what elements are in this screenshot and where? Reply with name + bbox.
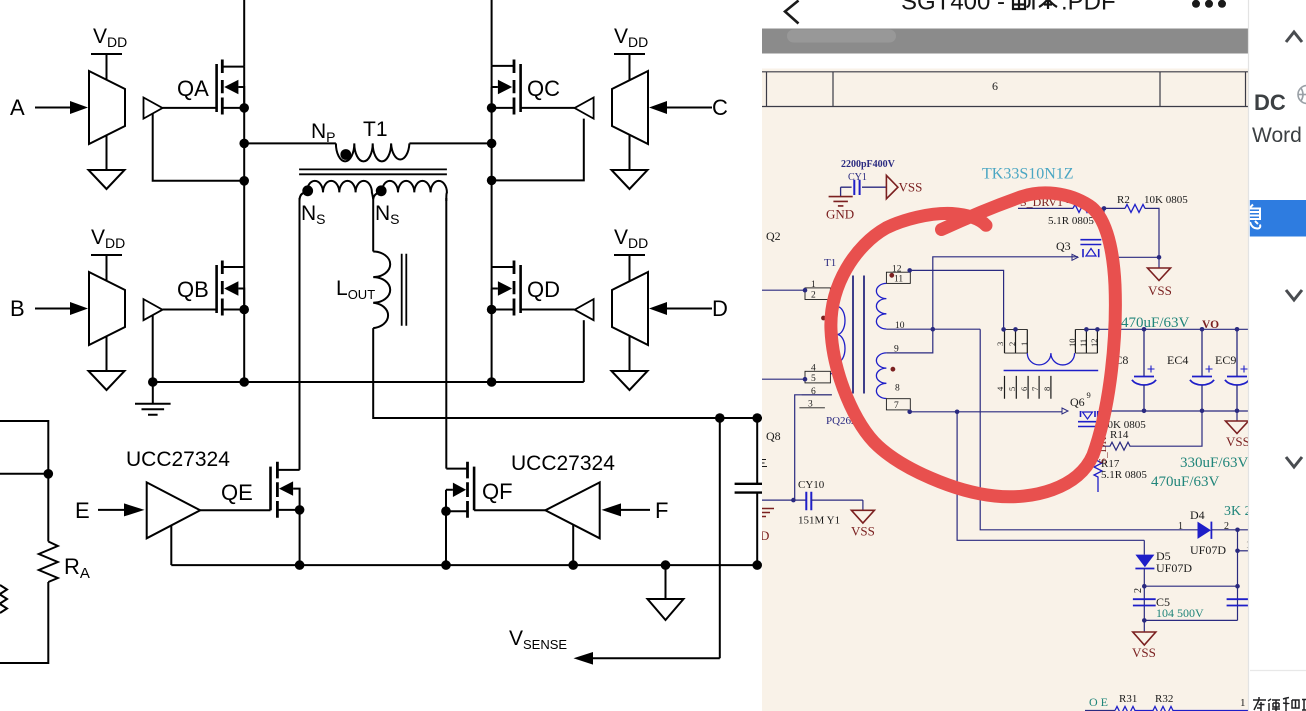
svg-text:.PDF: .PDF [1061,0,1116,16]
node QE rail [295,560,305,570]
power VSS (Q3) [1158,257,1160,268]
wire top rail to QA drain [243,0,245,67]
output choke winding [1027,353,1074,365]
wire QF return [572,525,574,565]
svg-text:Word: Word [1252,124,1302,147]
svg-text:470uF/63V: 470uF/63V [1121,315,1190,331]
capacitor EC4 [1190,329,1214,410]
svg-text:SGT400 -: SGT400 - [901,0,1005,16]
wire pin12 to choke [910,270,1004,329]
node gnd rail left [148,377,158,387]
T1 secondary phase dot lower [891,367,896,372]
node dots [44,103,763,570]
capacitor EC8 [1132,329,1156,410]
wire pin6 to CY10 node [795,395,832,500]
transistor QC [492,60,575,115]
svg-text:5.1R 0805: 5.1R 0805 [1101,469,1147,481]
capacitor CY1 [841,180,887,197]
svg-text:VDD: VDD [614,25,648,50]
svg-text:7: 7 [1030,387,1040,391]
node NP left [239,139,249,149]
svg-text:12: 12 [1089,339,1099,348]
T1 secondary pin 7 [886,399,910,410]
ground (hatched) at main rail [135,382,171,415]
node RA top [44,469,54,479]
resistor R2 [1125,204,1145,212]
wire primary NP left [244,142,336,144]
buffer gate QA [144,98,163,119]
node QC return [487,176,497,186]
svg-text:GND: GND [826,207,854,222]
svg-text:Q3: Q3 [1056,239,1071,253]
svg-text:VSS: VSS [851,524,875,539]
svg-text:Q8: Q8 [766,429,781,443]
title block table [762,72,1248,107]
diode D5 [1143,540,1145,554]
resistor R1 [1073,204,1093,212]
T1 core [853,276,864,394]
svg-text:5: 5 [811,374,816,384]
svg-text:8: 8 [895,384,900,394]
svg-text:VSS: VSS [1132,645,1156,660]
wire QE return [170,526,172,565]
op-amp driver QE (UCC27324) [147,482,201,538]
node dots output rail [1142,327,1147,332]
driver D (trapezoid buffer, mirrored) [612,255,713,390]
capacitor C5 [1133,599,1156,605]
svg-text:EC4: EC4 [1167,353,1188,367]
wire output cap bottom [756,493,758,565]
T1 primary winding [830,294,845,374]
svg-text:QE: QE [221,480,253,505]
svg-text:2: 2 [1133,588,1144,593]
output choke pins 10/11/12 [1075,329,1097,353]
svg-text:9: 9 [1087,390,1091,400]
capacitor output [735,484,762,493]
node gnd lower rail [661,560,671,570]
svg-text:EC9: EC9 [1215,353,1236,367]
output choke second winding pins 4-8 [1005,376,1051,399]
node QE source [295,505,305,515]
driver B (trapezoid buffer) [35,255,125,390]
red annotation circle (single hand-drawn loop, start/end crossing at top-left) [831,193,1115,497]
wire output cap top [756,418,758,484]
sidebar divider [1250,670,1306,672]
wire Q6 gate down [1097,428,1099,457]
svg-text:11: 11 [894,275,903,285]
svg-text:VSS: VSS [1148,283,1172,298]
node NP right [487,139,497,149]
node QD source [487,305,497,315]
svg-text:QC: QC [527,76,560,101]
svg-text:D4: D4 [1190,508,1205,522]
svg-text:QA: QA [177,76,209,101]
node QF source [441,506,451,516]
transformer T1 primary winding NP [336,143,409,161]
svg-text:VSENSE: VSENSE [509,627,567,652]
node NS2 dot mark [376,185,387,196]
svg-text:8: 8 [1042,387,1052,391]
T1 primary pin 1/2 [762,289,805,291]
lower rail from pin7 [1100,410,1248,412]
buffer gate QC [575,98,594,119]
pdf viewer gray toolbar [762,29,1250,54]
node cap lower rail [752,560,762,570]
svg-text:CY10: CY10 [798,479,825,491]
wire bus QA source to QB drain [243,67,245,382]
wire ground rail [153,381,584,383]
svg-text:D: D [712,296,728,321]
svg-text:3: 3 [995,342,1005,346]
buffer gate QB [144,299,163,320]
resistor R31 [1115,707,1248,711]
transistor QB [163,261,245,316]
svg-text:B: B [10,296,25,321]
wire bus QC source to QD drain [491,66,493,382]
svg-text:7: 7 [894,401,899,411]
svg-text:4: 4 [811,363,816,373]
power VSS (C5) [1143,620,1145,632]
svg-text:C: C [712,95,728,120]
svg-text:2: 2 [811,291,816,301]
svg-text:A: A [10,95,25,120]
svg-text:UF07D: UF07D [1156,561,1192,575]
node QF return rail [568,560,578,570]
globe icon (clipped) [1298,86,1306,104]
capacitor CY10 [762,499,806,501]
svg-text:6: 6 [1019,387,1029,391]
transistor QF [446,462,545,518]
wire NS left to QE drain [299,198,301,470]
wire top rail to QC drain [491,0,493,66]
T1 secondary winding lower [876,353,886,399]
svg-text:CY1: CY1 [848,172,867,183]
menu dots icon [1192,0,1226,8]
wire QC return [492,119,584,181]
wire VSENSE vertical [719,418,721,658]
svg-text:DC: DC [1254,90,1286,115]
wire pin10 down to D4 line [980,329,1197,530]
svg-text:E: E [75,498,90,523]
wire QB return [152,315,154,382]
node output vsense [715,413,725,423]
T1 core [299,169,447,174]
wire QF source down [445,511,447,565]
wire LOUT to output node [373,328,762,418]
svg-text:VSS: VSS [1226,434,1250,449]
back arrow icon [785,1,799,24]
wire center tap up to Q3 [933,257,1078,329]
label fragment at page left edge [762,460,767,467]
node QC source [487,103,497,113]
input arrow F [602,503,651,516]
svg-text:QF: QF [482,479,513,504]
node QA source [239,103,249,113]
svg-text:QD: QD [527,277,560,302]
svg-text:R14: R14 [1110,429,1129,441]
svg-text:NS: NS [301,202,326,227]
node QA return [239,176,249,186]
svg-text:QB: QB [177,277,209,302]
svg-text:104 500V: 104 500V [1156,606,1204,620]
VSENSE arrowhead [574,652,594,665]
svg-text:10: 10 [1067,339,1077,348]
wire center tap to LOUT [372,197,374,252]
svg-text:1: 1 [1240,697,1246,709]
wire QD return [583,320,585,382]
svg-text:2: 2 [1007,342,1017,346]
wire C5 bottom rail [1144,619,1237,621]
power VSS (EC9) [1236,411,1238,421]
power VSS (top) [886,175,898,198]
svg-text:TK33S10N1Z: TK33S10N1Z [982,166,1074,183]
transistor QA [163,60,245,115]
svg-text:O E: O E [1089,695,1108,709]
sidebar [1249,0,1306,711]
transformer T1 secondary winding NS (right) [373,181,447,201]
output choke core [1004,370,1099,372]
svg-text:5.1R 0805: 5.1R 0805 [1048,215,1094,227]
wire D5 cathode to right [1144,585,1237,587]
svg-text:T1: T1 [363,118,388,141]
wire pin7 down to D5 line [957,412,1144,541]
resistor R17 [1094,457,1102,492]
wire R1R2 node to Q3 gate [1103,208,1105,237]
transformer T1 secondary winding NS (left) [300,181,374,201]
node QB rail [239,377,249,387]
input arrow E [98,503,145,516]
ground (triangle) at lower rail [648,565,684,620]
capacitor EC9 [1225,329,1249,410]
wire lower rail [171,564,757,566]
resistor (partial, left edge) [0,585,7,613]
chevron down icon 1 [1286,290,1302,300]
wire D4 node down [1237,530,1239,621]
svg-text:NP: NP [311,120,336,145]
wire VSENSE horizontal [593,657,720,659]
buffer gate QD [575,299,594,320]
svg-text:UCC27324: UCC27324 [511,452,615,475]
svg-text:VDD: VDD [614,226,648,251]
capacitor (right edge) [1227,599,1250,605]
svg-text:10K 0805: 10K 0805 [1144,194,1188,206]
svg-text:F: F [655,498,668,523]
wire QE source down [299,510,301,565]
wire NS right to QF drain [445,198,447,469]
svg-text:RA: RA [64,554,90,582]
svg-text:5: 5 [1007,387,1017,391]
wire QA return [153,114,245,181]
svg-text:VDD: VDD [91,226,125,251]
svg-text:Q2: Q2 [766,229,781,243]
resistor R14 [1098,411,1202,450]
svg-text:UF07D: UF07D [1190,543,1226,557]
svg-text:470uF/63V: 470uF/63V [1151,474,1220,490]
svg-text:2200pF400V: 2200pF400V [841,159,896,170]
T1 primary phase dot [821,316,826,321]
node NP dot mark [340,149,351,160]
svg-text:330uF/63V: 330uF/63V [1180,455,1249,471]
driver A (trapezoid buffer) [35,54,125,189]
svg-text:3K 2: 3K 2 [1224,504,1252,519]
svg-text:R2: R2 [1117,194,1130,206]
node QD rail [487,377,497,387]
node NS1 dot mark [302,185,313,196]
svg-text:151M Y1: 151M Y1 [798,515,840,527]
svg-text:6: 6 [811,387,816,397]
output choke pins 3/2/1 [1005,329,1028,353]
svg-text:Q6: Q6 [1070,395,1085,409]
chevron down icon 2 [1286,457,1302,467]
svg-text:T1: T1 [824,257,836,269]
blue button [1250,200,1306,237]
svg-text:R31: R31 [1119,693,1137,705]
T1 primary pin 4/5 [805,371,830,383]
wire pin7 rail [910,411,1062,413]
inductor LOUT [373,252,406,329]
svg-text:NS: NS [375,202,400,227]
label cun chu he (storage) [1253,697,1306,711]
svg-text:VSS: VSS [899,180,923,195]
svg-text:11: 11 [1078,339,1088,347]
chevron up icon [1286,32,1302,42]
node output cap [752,413,762,423]
transistor QE [200,462,299,518]
op-amp driver QF (UCC27324) [545,482,599,538]
ground GND (left edge, clipped) [762,509,774,517]
svg-text:UCC27324: UCC27324 [126,448,230,471]
resistor RA [0,421,58,663]
node QF rail [441,560,451,570]
svg-text:6: 6 [992,79,998,93]
svg-text:R32: R32 [1155,693,1173,705]
svg-text:12: 12 [892,264,902,274]
node QB source [239,305,249,315]
svg-text:VDD: VDD [93,25,127,50]
T1 secondary pin 12/11 [886,272,910,283]
ground GND [829,197,853,206]
svg-text:LOUT: LOUT [336,277,375,302]
transistor QD [492,261,575,316]
T1 secondary winding upper [876,283,886,329]
svg-text:D: D [762,528,769,543]
driver C (trapezoid buffer, mirrored) [612,54,713,189]
svg-text:1: 1 [1019,342,1029,346]
power VSS (CY10) [862,500,864,510]
wire primary NP right [409,142,491,144]
svg-text:1: 1 [1178,521,1183,532]
svg-text:1: 1 [811,280,816,290]
